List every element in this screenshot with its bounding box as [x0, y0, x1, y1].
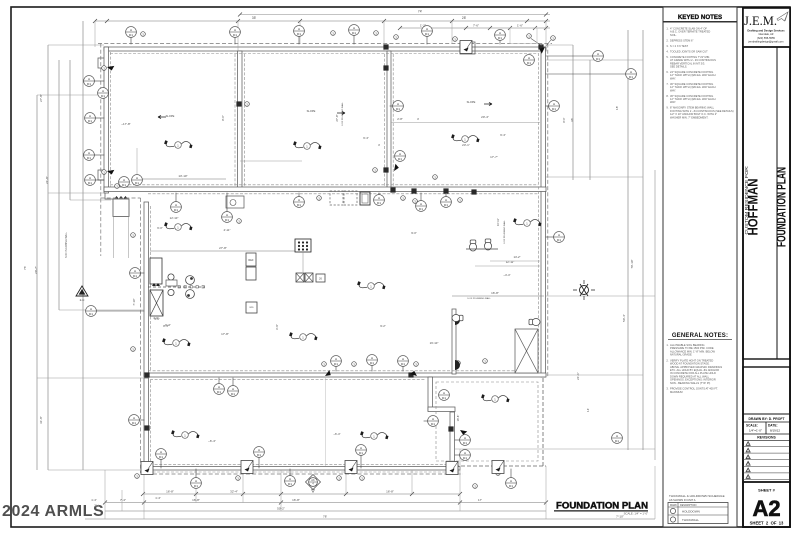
svg-text:REF: REF: [248, 258, 254, 262]
slab edge below garage y179 dim: [137, 178, 226, 180]
svg-text:SOIL.: SOIL.: [670, 33, 677, 37]
svg-text:14'-2": 14'-2": [513, 255, 520, 259]
svg-text:10'-11": 10'-11": [496, 218, 500, 226]
svg-text:7'-6": 7'-6": [473, 24, 479, 28]
svg-text:TM: TM: [94, 504, 99, 508]
wall: bottom exterior wall: [144, 467, 460, 471]
wall: garage left exterior wall: [104, 47, 109, 193]
svg-text:MAXIMUM: MAXIMUM: [670, 390, 683, 394]
svg-text:16'-8": 16'-8": [386, 490, 394, 494]
svg-text:20'-7": 20'-7": [34, 266, 38, 274]
svg-text:NON - BEARING WALLS (TYP. PI): NON - BEARING WALLS (TYP. PI): [670, 381, 710, 385]
open pilaster squares on walls: [141, 41, 504, 475]
svg-text:1'-6": 1'-6": [517, 24, 523, 28]
svg-text:9'-2": 9'-2": [380, 324, 386, 328]
top dim extension verticals: [94, 21, 96, 47]
keyed notes text: [666, 27, 733, 120]
svg-text:16'-8": 16'-8": [491, 291, 499, 295]
svg-text:SCALE: 1/4" = 1'-0": SCALE: 1/4" = 1'-0": [624, 512, 648, 516]
svg-text:~6'-4": ~6'-4": [208, 439, 216, 443]
svg-text:1/4"=1'-0": 1/4"=1'-0": [749, 429, 762, 433]
svg-text:21'-1": 21'-1": [576, 372, 580, 380]
svg-text:6'-4": 6'-4": [363, 136, 369, 140]
svg-text:16'-8": 16'-8": [166, 490, 174, 494]
svg-text:DRAWN BY: D. PROFT: DRAWN BY: D. PROFT: [748, 417, 785, 421]
svg-text:SLOPE: SLOPE: [307, 109, 316, 113]
svg-text:18': 18': [615, 106, 619, 110]
foundation plan title: [554, 501, 648, 516]
wall: left wall lower section: [144, 378, 149, 470]
svg-text:S = 2 X 6 TEST: S = 2 X 6 TEST: [670, 44, 688, 48]
svg-text:8'-0": 8'-0": [221, 115, 225, 121]
svg-text:74': 74': [418, 10, 423, 14]
roof overhang dashed mid connector: [101, 197, 141, 199]
wall: interior bearing wall: [387, 51, 391, 191]
room label arrow garage: [158, 116, 166, 119]
softener circle small bottom: [168, 289, 174, 295]
water heater upper rect: [150, 258, 162, 284]
svg-text:2.: 2.: [666, 358, 668, 362]
svg-text:A2: A2: [752, 496, 780, 521]
svg-text:21'-8": 21'-8": [45, 176, 49, 184]
svg-text:GENERAL NOTES:: GENERAL NOTES:: [672, 333, 728, 339]
roof overhang dashed below bottom wall: [141, 473, 464, 475]
JEM logo box: [743, 8, 790, 47]
project name section: [743, 47, 790, 359]
svg-text:23'-1": 23'-1": [462, 143, 470, 147]
light dim rect near top-right corner: [510, 28, 537, 44]
svg-text:J.E.M.: J.E.M.: [744, 14, 777, 28]
wall: patio jog horizontal: [428, 407, 455, 412]
svg-text:6'-3": 6'-3": [165, 323, 171, 327]
wall pilaster blocks: [144, 44, 543, 431]
washer dryer rect: [246, 302, 257, 313]
roof overhang dashed line above top wall: [98, 43, 552, 45]
slab break symbols: [162, 134, 541, 439]
softener circle small top: [168, 274, 174, 280]
svg-text:76': 76': [23, 266, 27, 270]
svg-text:16'-8": 16'-8": [292, 498, 300, 502]
svg-text:WAY.: WAY.: [670, 100, 676, 104]
svg-text:12'-10": 12'-10": [170, 216, 179, 220]
bath wall light line y296: [452, 295, 544, 297]
svg-text:12" THICK WITH (3)#4 EA. WAY E: 12" THICK WITH (3)#4 EA. WAY EACH: [670, 73, 716, 77]
svg-text:S OF PLUMBING WALL: S OF PLUMBING WALL: [65, 231, 68, 257]
anchor bolt dots on equipment line: [152, 283, 160, 286]
svg-text:17': 17': [478, 498, 482, 502]
svg-text:DESCRIPTION: DESCRIPTION: [680, 504, 697, 507]
porch pier rect below garage: [113, 199, 129, 217]
wall: top exterior wall: [104, 47, 546, 51]
thickwall holddown schedule: [668, 494, 728, 524]
bottom dim extension verticals: [104, 470, 106, 519]
svg-text:70'-10": 70'-10": [630, 259, 634, 268]
svg-text:4'-11": 4'-11": [224, 228, 231, 232]
svg-text:8.: 8.: [666, 94, 668, 98]
patio edge dashed right: [542, 378, 544, 466]
wall: patio jog vertical: [428, 377, 433, 411]
far right dimension vertical x655: [654, 170, 656, 460]
svg-text:MARK: MARK: [670, 504, 677, 507]
equipment small rect: [166, 280, 177, 286]
equipment tick squares on dashed line: [178, 286, 204, 288]
svg-text:2-C: 2-C: [80, 298, 86, 302]
wall: right exterior wall: [541, 47, 546, 377]
svg-text:S OF PLUMBING WALL: S OF PLUMBING WALL: [503, 219, 506, 243]
wall: mid horizontal wall at y186: [104, 187, 546, 192]
bath fixtures pair: [470, 240, 477, 251]
svg-text:3.: 3.: [666, 44, 668, 48]
pump circle big bottom: [186, 290, 195, 299]
svg-text:HOLDDOWN: HOLDDOWN: [682, 510, 700, 514]
svg-text:FOUNDATION PLAN: FOUNDATION PLAN: [556, 501, 648, 511]
svg-text:28': 28': [462, 16, 467, 20]
svg-text:6'-0": 6'-0": [157, 226, 163, 230]
svg-text:W/D: W/D: [249, 307, 254, 309]
general notes text: [666, 343, 722, 394]
left dimension vertical lines: [36, 95, 38, 470]
svg-text:(623) 555-5555: (623) 555-5555: [757, 36, 775, 40]
small keyed-note circles: [102, 31, 556, 489]
right dimension vertical lines: [572, 45, 574, 180]
svg-text:2024 ARMLS: 2024 ARMLS: [2, 503, 104, 520]
svg-text:12" THICK WITH (3)#4 EA. WAY E: 12" THICK WITH (3)#4 EA. WAY EACH: [670, 85, 716, 89]
holddown D symbols on patio line: [455, 315, 460, 370]
notes column frame: [663, 7, 737, 527]
svg-text:THICKWALL: THICKWALL: [682, 518, 699, 522]
svg-text:FOUNDATION PLAN: FOUNDATION PLAN: [773, 167, 788, 247]
svg-text:9.: 9.: [666, 106, 668, 110]
svg-text:9'-0": 9'-0": [411, 231, 417, 235]
svg-text:14': 14': [586, 408, 590, 412]
porch pier at common wall base: [226, 196, 244, 208]
svg-text:27'-8": 27'-8": [219, 246, 227, 250]
paper plane logo: [777, 12, 788, 21]
svg-text:Drafting and Design Services: Drafting and Design Services: [747, 29, 785, 33]
drawn-by / revisions box: [743, 367, 790, 482]
svg-text:17'-8": 17'-8": [221, 332, 229, 336]
svg-text:6.: 6.: [666, 70, 668, 74]
holddown anchor arrows: [107, 45, 547, 436]
svg-text:DEPRESS STEM 6": DEPRESS STEM 6": [670, 38, 693, 42]
svg-text:35': 35': [252, 16, 257, 20]
wall: long interior wall at y373: [144, 373, 546, 377]
detail callout bubbles with leaders: [84, 25, 637, 489]
diagonal leader from right small circle to corner: [547, 40, 551, 46]
left dim connector stubs: [37, 94, 104, 96]
bottom dimension lines: [143, 493, 460, 495]
sheet number box: [743, 482, 790, 527]
diamond holddown marker bottom: [306, 475, 321, 493]
svg-text:12" THICK WITH (4)#4 EA. WAY E: 12" THICK WITH (4)#4 EA. WAY EACH: [670, 97, 716, 101]
water closet x-square row mid: [296, 273, 325, 282]
svg-text:KEYED NOTES: KEYED NOTES: [678, 14, 722, 21]
right dim connector stubs: [546, 59, 643, 61]
toilet on right wall: [529, 319, 540, 326]
patio inner dashed frame: [436, 382, 538, 461]
svg-text:32'-4": 32'-4": [230, 490, 238, 494]
masonry column X-box right: [515, 329, 538, 373]
garage bottom-left corner pilaster notch: [98, 170, 104, 180]
svg-text:7.: 7.: [666, 82, 668, 86]
svg-text:WAY.: WAY.: [670, 88, 676, 92]
svg-text:1'-4": 1'-4": [91, 498, 97, 502]
svg-text:SCALE:: SCALE:: [746, 424, 758, 428]
svg-text:SHEET #: SHEET #: [758, 488, 775, 493]
svg-text:~4'-4": ~4'-4": [503, 273, 510, 277]
svg-text:4.: 4.: [666, 49, 668, 53]
svg-text:1.: 1.: [666, 27, 668, 31]
equipment dashed line y287: [148, 286, 205, 288]
patio edge dashed bottom: [455, 465, 546, 467]
room label arrow mid garage: [337, 112, 345, 115]
svg-text:AS SHOWN IN UNIT A: AS SHOWN IN UNIT A: [669, 498, 696, 502]
interior dimension lines: [150, 250, 295, 252]
sink left of bath wall: [452, 315, 463, 322]
water heater lower X-box: [150, 290, 163, 316]
svg-text:8'-0": 8'-0": [562, 117, 566, 122]
svg-text:~6'-4": ~6'-4": [333, 432, 340, 436]
svg-text:jemdraftingdesign@gmail.com: jemdraftingdesign@gmail.com: [748, 39, 784, 43]
svg-text:12'-11": 12'-11": [506, 260, 514, 264]
porch edge lines below pier: [113, 217, 115, 259]
svg-text:13'-10": 13'-10": [178, 174, 187, 178]
svg-text:7'-4": 7'-4": [120, 498, 126, 502]
svg-text:SEE DETAILS.: SEE DETAILS.: [670, 65, 688, 69]
outer top dimension line: [240, 14, 550, 16]
svg-text:16'-10": 16'-10": [430, 341, 439, 345]
svg-text:8/19/12: 8/19/12: [770, 429, 780, 433]
slab edge line horizontal y161: [240, 160, 302, 162]
svg-text:SHEET 2 OF 13: SHEET 2 OF 13: [750, 521, 784, 526]
svg-text:TOOLED JOINTS OR SAW CUT: TOOLED JOINTS OR SAW CUT: [670, 49, 708, 53]
dot grid leg line: [302, 252, 304, 272]
svg-text:Glendale, AZ: Glendale, AZ: [759, 32, 774, 36]
keyed notes header: [663, 7, 737, 22]
svg-text:THICKWALL & HOLDDOWN SCHEDU: THICKWALL & HOLDDOWN SCHEDULE: [669, 494, 725, 498]
interior light vertical x325 lower room: [325, 377, 327, 466]
svg-text:~17'-8": ~17'-8": [121, 122, 130, 126]
roof overhang dashed right of right wall: [547, 44, 549, 378]
svg-text:4'-6": 4'-6": [154, 317, 160, 321]
wall: bath interior wall: [452, 309, 456, 374]
svg-text:27'-8": 27'-8": [335, 114, 339, 121]
svg-text:36': 36': [570, 118, 574, 122]
roof overhang dashed left of garage: [100, 44, 102, 257]
svg-text:16'-8": 16'-8": [192, 498, 200, 502]
wall: left wall middle section: [144, 202, 149, 376]
top wall pilaster block: [460, 42, 475, 54]
svg-text:27'-8": 27'-8": [39, 94, 43, 102]
svg-text:WAY.: WAY.: [670, 76, 676, 80]
floor sink dot grid: [295, 239, 311, 252]
svg-text:2'-8": 2'-8": [397, 117, 403, 121]
kitchen solid rect with inner: [360, 192, 370, 205]
svg-text:2.: 2.: [666, 38, 668, 42]
svg-text:50'-2": 50'-2": [277, 507, 285, 511]
svg-text:17'-7": 17'-7": [490, 155, 498, 159]
appliance stacked rects: [246, 253, 256, 280]
general notes header: [668, 333, 732, 339]
room label arrow right room: [484, 103, 492, 106]
svg-text:1.: 1.: [666, 343, 668, 347]
interior dashed lines inside walls: [110, 52, 112, 187]
diagonal leader from small circle to top-right corner: [531, 39, 542, 47]
left holddown triangle symbol: [76, 286, 88, 302]
svg-text:HOFFMAN: HOFFMAN: [746, 179, 761, 236]
svg-text:1'-4": 1'-4": [155, 496, 161, 500]
svg-text:50'-4": 50'-4": [622, 314, 626, 322]
step connector garage to pier: [105, 193, 113, 199]
svg-text:6'-4": 6'-4": [500, 133, 506, 137]
svg-text:20'-4": 20'-4": [481, 115, 489, 119]
garage top-left corner pilaster notch: [98, 58, 104, 68]
svg-text:AK: AK: [311, 478, 315, 482]
crossed column marker right: [573, 280, 595, 300]
svg-text:78': 78': [323, 515, 327, 519]
svg-text:SLOPE: SLOPE: [467, 100, 476, 104]
svg-text:5.: 5.: [666, 55, 668, 59]
svg-text:S OF PLUMBING WALL: S OF PLUMBING WALL: [467, 297, 491, 300]
svg-text:NATURAL GRADE: NATURAL GRADE: [670, 353, 692, 357]
pump circle big top: [186, 276, 195, 285]
top dimension line row 1: [95, 20, 550, 22]
svg-text:7'-10": 7'-10": [132, 298, 136, 305]
svg-text:31'-8": 31'-8": [39, 416, 43, 424]
svg-text:REVISIONS: REVISIONS: [757, 436, 776, 440]
wall: lower-right vertical wall: [450, 412, 455, 470]
svg-text:16'-8": 16'-8": [456, 415, 460, 422]
svg-text:WASHER MIN. 7" EMBEDMENT.: WASHER MIN. 7" EMBEDMENT.: [670, 115, 709, 119]
anchor hatch on pier top: [115, 196, 128, 199]
title block outer frame: [743, 8, 790, 527]
svg-text:DATE:: DATE:: [768, 424, 778, 428]
svg-text:3.: 3.: [666, 387, 668, 391]
roof overhang dashed left of lower section: [140, 198, 142, 473]
svg-text:SLOPE: SLOPE: [166, 114, 175, 118]
svg-text:6'-9": 6'-9": [275, 324, 279, 330]
kitchen dashed squares below wall: [330, 191, 357, 205]
top dimension line row 2: [400, 27, 550, 29]
wall: garage/house common wall: [238, 51, 243, 191]
